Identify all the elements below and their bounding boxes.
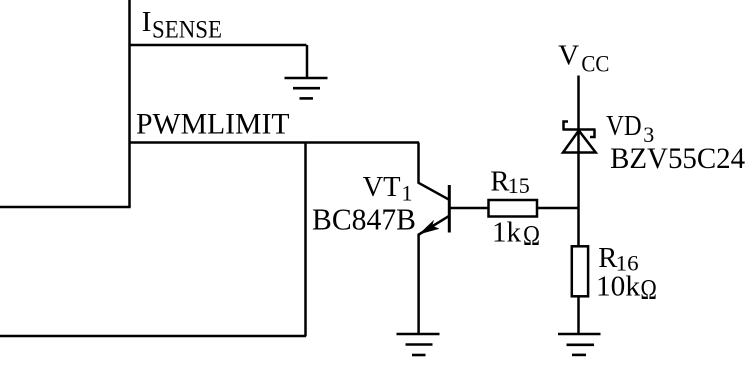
wire ISENSE horizontal <box>130 44 307 47</box>
base bar <box>448 185 451 233</box>
zener diode VD3 <box>563 122 596 153</box>
svg-text:BC847B: BC847B <box>312 202 416 237</box>
svg-text:PWMLIMIT: PWMLIMIT <box>136 108 290 141</box>
wire base to R15 <box>450 207 489 210</box>
svg-text:15: 15 <box>508 173 530 198</box>
svg-text:VT: VT <box>363 172 401 203</box>
wire PWMLIMIT horizontal <box>130 141 420 144</box>
emitter diagonal <box>418 216 449 235</box>
IC U1 bottom edge <box>0 206 131 209</box>
wire branch vertical at node x305 <box>304 143 307 337</box>
svg-text:1k: 1k <box>492 217 522 249</box>
wire R15 to node <box>537 207 579 210</box>
resistor R15 body <box>489 200 538 217</box>
wire bottom horizontal <box>0 335 306 338</box>
wire ISENSE ground drop <box>306 45 309 78</box>
svg-text:BZV55C24: BZV55C24 <box>610 142 745 175</box>
transistor Q1 VT1 <box>418 183 449 235</box>
wire VCC vertical <box>577 76 580 247</box>
svg-text:Ω: Ω <box>523 221 540 252</box>
svg-text:SENSE: SENSE <box>152 15 222 44</box>
svg-text:Ω: Ω <box>640 275 657 306</box>
svg-text:CC: CC <box>581 52 609 77</box>
wire R16 to ground <box>577 296 580 334</box>
IC U1 right edge <box>128 0 131 207</box>
wire collector vertical <box>417 143 420 184</box>
svg-text:V: V <box>558 40 579 72</box>
resistor R16 body <box>572 246 588 296</box>
cathode bar with hooks <box>563 122 596 138</box>
emitter arrow <box>419 220 440 235</box>
svg-text:I: I <box>142 6 152 38</box>
collector diagonal <box>418 183 449 200</box>
ground G2 (emitter) <box>397 334 440 355</box>
svg-text:10k: 10k <box>596 271 641 303</box>
ground G1 (ISENSE) <box>285 78 328 98</box>
svg-text:VD: VD <box>606 111 642 142</box>
ground G3 (R16) <box>558 334 601 355</box>
wire emitter vertical <box>417 234 420 334</box>
anode triangle <box>563 131 596 153</box>
